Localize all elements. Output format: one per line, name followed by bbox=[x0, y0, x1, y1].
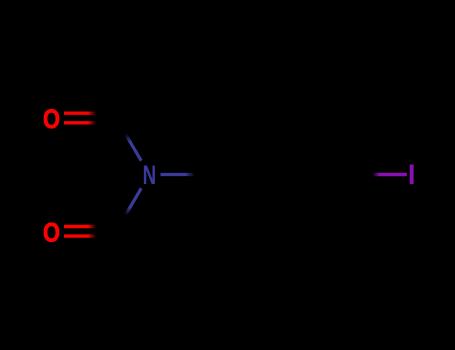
double bond C1=O1 (top carbonyl) bbox=[64, 113, 116, 123]
svg-text:O: O bbox=[43, 217, 60, 247]
benzene inner double bond lines bbox=[229, 131, 335, 225]
bond C2-CH3 (bottom methyl) bbox=[116, 231, 149, 288]
bond C1-CH3 (top methyl) bbox=[116, 61, 149, 118]
atom I (iodine) bbox=[410, 165, 414, 185]
benzene ring (black on black, faint) bbox=[216, 117, 348, 231]
bond N-C1 (N to top carbonyl carbon) bbox=[116, 118, 141, 161]
double bond C2=O2 (bottom carbonyl) bbox=[64, 227, 116, 237]
bond N-C2 (N to bottom carbonyl carbon) bbox=[116, 188, 141, 231]
svg-text:N: N bbox=[143, 160, 157, 190]
bond N-C3 (N to ring ipso carbon) bbox=[161, 173, 216, 176]
svg-text:O: O bbox=[43, 104, 60, 134]
bond C6-I (ring to iodine) bbox=[348, 173, 407, 176]
